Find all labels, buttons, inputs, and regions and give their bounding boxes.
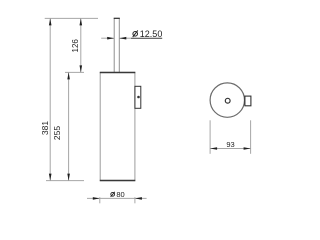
wall tab side view [135,86,141,108]
dimension 255 arrow bottom [67,174,70,181]
dimension 80 left tick [99,197,101,203]
svg-text:12.50: 12.50 [140,29,163,39]
dimension 93 line [210,148,251,150]
dimension 255 arrow top [67,72,70,79]
dimension 381 arrow top [49,18,52,25]
cylinder top line [100,72,136,74]
dimension 12.50 underline [131,37,162,39]
top view circle [210,83,244,117]
svg-text:80: 80 [116,190,124,199]
rod right outline [118,18,120,72]
dimension 12.50 left arrow [107,37,114,40]
dimension 93 right extension line [250,120,252,154]
svg-text:255: 255 [52,126,62,140]
dimension 12.50 right line [119,37,131,39]
rod left outline [113,18,115,72]
dimension 93 left extension line [209,120,211,154]
dimension 381 line [49,18,51,180]
top view center hole [225,98,230,103]
dimension 12.50 left line [101,37,114,39]
dimension 381 arrow bottom [49,174,52,181]
dimension 80 left arrow [93,197,100,200]
cylinder bottom line [100,180,136,182]
dimension 80 line [87,197,147,199]
extension line cylinder-top [65,71,84,73]
top view wall tab [245,96,251,106]
dimension 255 line [68,72,70,180]
svg-text:93: 93 [226,140,234,149]
svg-text:126: 126 [71,39,80,53]
diameter symbol 80 [111,192,115,196]
dimension 80 right tick [134,197,136,203]
dimension 80 right arrow [135,197,142,200]
svg-text:381: 381 [40,121,50,135]
extension line rod-top [45,17,98,19]
dimension 126 arrow top [80,18,83,25]
rod top cap [114,17,120,19]
diameter symbol 12.50 [133,32,138,37]
dimension 93 right arrow [244,147,251,150]
dimension 93 left arrow [210,147,217,150]
dimension 12.50 right arrow [119,37,126,40]
wall tab screw dot [137,96,140,99]
cylinder body outline [100,72,135,180]
dimension 126 line [80,18,82,72]
dimension 126 arrow bottom [80,65,83,72]
extension line bottom [46,180,84,182]
